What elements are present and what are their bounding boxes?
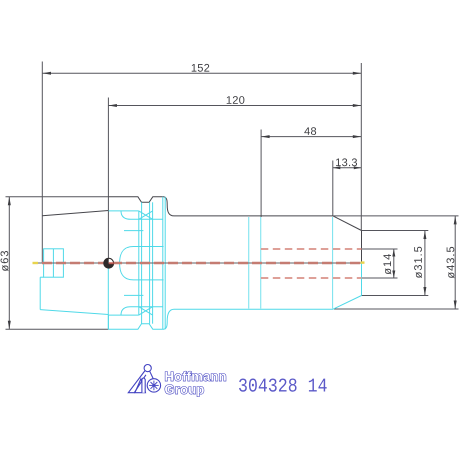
dimension dia43.5 ext bottom	[334, 308, 459, 310]
shank back step connector	[40, 197, 361, 329]
hidden bore line upper	[261, 248, 362, 250]
dimension dia31.5 ext bottom	[362, 295, 429, 297]
dimension 48 arrows	[261, 135, 361, 138]
extension line dia63 bottom	[6, 328, 109, 330]
clamping claw ear lower	[109, 307, 163, 315]
slot line 1	[138, 211, 140, 315]
logo gear snowflake	[149, 381, 159, 391]
dimension 120 line	[108, 105, 361, 107]
centerline yellow tick left	[33, 262, 39, 264]
flange front face lower	[107, 315, 109, 330]
logo arm	[150, 371, 154, 379]
logo head	[144, 365, 151, 372]
dimension dia63 arrows	[8, 197, 11, 329]
nose taper start edge	[332, 217, 334, 309]
clamping set dome	[120, 247, 164, 280]
dimension dia63 label	[1, 251, 9, 271]
Hoffmann logo wordmark	[165, 371, 226, 396]
red dash over datum dot	[109, 262, 114, 264]
extension line right common (tool nose)	[360, 63, 362, 231]
centerline base	[33, 262, 365, 264]
claw diagonal lower a	[139, 307, 153, 315]
dimension 13.3 label	[336, 158, 357, 166]
taper bottom	[40, 310, 108, 315]
bore step edge 1	[248, 217, 250, 309]
dimension dia14 label	[383, 254, 391, 274]
extension line left (152) / shank back edge upper	[41, 62, 43, 264]
flange inner edge 2	[164, 197, 166, 329]
extension line 48	[260, 130, 262, 218]
claw inner step upper	[124, 230, 143, 232]
dimension dia31.5 arrows	[423, 231, 426, 296]
dimension dia14 ext top	[362, 248, 398, 250]
dimension 120 arrows	[108, 104, 361, 107]
dimension dia14 line	[393, 249, 395, 278]
article number 304328 14	[239, 378, 327, 391]
datum point dot	[104, 258, 114, 268]
slot line 2	[141, 202, 143, 323]
dimension dia43.5 line	[454, 216, 456, 309]
body outline upper: nose taper	[333, 216, 362, 231]
extension line 13.3	[332, 161, 334, 217]
dimension 152 label	[192, 64, 210, 72]
dimension 120 label	[227, 96, 245, 104]
dimension 152 line	[43, 72, 362, 74]
claw inner step lower	[124, 294, 143, 296]
hidden bore line lower	[261, 277, 362, 279]
logo inner triangle	[135, 379, 146, 393]
flange bottom with gripper notch	[108, 309, 333, 329]
dimension dia43.5 ext top	[333, 215, 459, 217]
logo thumb bar	[142, 378, 145, 393]
dimension dia43.5 label	[447, 247, 455, 278]
centerline yellow tick right	[361, 261, 365, 263]
coolant tube back end rectangle	[44, 249, 64, 277]
dimension dia14 ext bottom	[362, 277, 398, 279]
dimension 48 label	[304, 127, 316, 135]
flange face lower inner edge	[107, 263, 109, 329]
logo body outline	[128, 371, 146, 393]
extension line 120 / flange front face upper	[107, 98, 109, 264]
body lower half cyan	[39, 277, 41, 309]
dimension 48 line	[261, 136, 361, 138]
Hoffmann logo icon	[128, 365, 160, 393]
centerline red dashes	[40, 262, 364, 264]
shank back face lower	[39, 277, 41, 309]
logo gear outer	[147, 379, 160, 392]
dimension dia31.5 line	[424, 231, 426, 296]
dimension 152 arrows	[43, 72, 362, 75]
dimension dia63 line	[8, 197, 10, 329]
body outline upper: nose face	[361, 231, 363, 264]
nose face lower	[361, 263, 363, 296]
clamping claw ear upper	[109, 211, 163, 219]
dimension dia14 arrows	[392, 249, 395, 278]
flange inner edge 1	[162, 197, 164, 329]
dimension dia43.5 arrows	[454, 216, 457, 309]
bore step edge 2	[260, 217, 262, 309]
claw diagonal upper a	[139, 211, 153, 219]
claw diagonal lower b	[139, 307, 153, 315]
dimension 13.3 line	[333, 167, 362, 169]
extension line dia63 top	[6, 196, 109, 198]
dimension 13.3 arrows	[333, 166, 362, 169]
claw diagonal upper b	[139, 211, 153, 219]
slot line 3	[149, 202, 151, 323]
body outline upper: taper top	[42, 211, 108, 216]
coolant tube back divider	[52, 249, 54, 277]
slot line 4	[152, 202, 154, 323]
body outline upper: flange top with gripper notch	[108, 197, 333, 216]
nose taper bottom	[333, 296, 362, 310]
dimension dia31.5 ext top	[362, 230, 429, 232]
dimension dia31.5 label	[414, 247, 422, 278]
